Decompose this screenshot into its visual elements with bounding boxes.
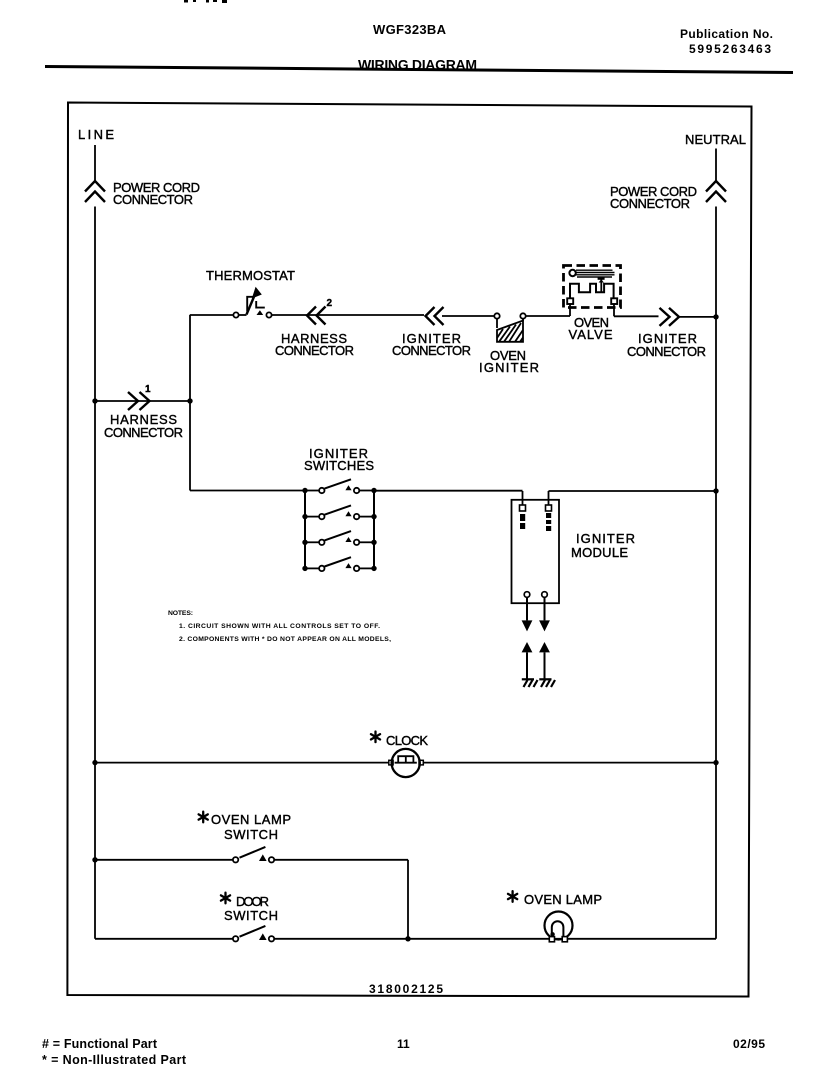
svg-text:NOTES:: NOTES:	[168, 610, 193, 617]
svg-text:SWITCHES: SWITCHES	[304, 458, 374, 473]
svg-text:CONNECTOR: CONNECTOR	[392, 343, 471, 358]
svg-text:SWITCH: SWITCH	[224, 827, 278, 842]
svg-text:11: 11	[397, 1037, 410, 1051]
svg-text:1. CIRCUIT SHOWN WITH ALL CONT: 1. CIRCUIT SHOWN WITH ALL CONTROLS SET T…	[179, 623, 380, 630]
svg-text:MODULE: MODULE	[571, 545, 628, 560]
svg-text:DOOR: DOOR	[236, 894, 269, 909]
svg-text:NEUTRAL: NEUTRAL	[685, 132, 746, 147]
svg-text:CONNECTOR: CONNECTOR	[104, 425, 183, 440]
svg-text:CONNECTOR: CONNECTOR	[113, 192, 193, 207]
svg-text:THERMOSTAT: THERMOSTAT	[206, 268, 295, 283]
svg-text:Publication No.: Publication No.	[680, 27, 773, 41]
svg-text:CLOCK: CLOCK	[386, 733, 428, 748]
svg-text:WGF323BA: WGF323BA	[373, 22, 447, 37]
svg-text:CONNECTOR: CONNECTOR	[627, 344, 706, 359]
svg-text:LINE: LINE	[78, 127, 114, 142]
svg-text:VALVE: VALVE	[569, 327, 613, 342]
svg-text:IGNITER: IGNITER	[479, 360, 539, 375]
svg-text:318002125: 318002125	[369, 982, 443, 996]
svg-text:OVEN LAMP: OVEN LAMP	[524, 892, 602, 907]
svg-text:CONNECTOR: CONNECTOR	[610, 196, 690, 211]
svg-text:SWITCH: SWITCH	[224, 908, 278, 923]
svg-text:2. COMPONENTS WITH * DO NOT AP: 2. COMPONENTS WITH * DO NOT APPEAR ON AL…	[179, 636, 391, 643]
svg-text:OVEN LAMP: OVEN LAMP	[211, 812, 291, 827]
svg-text:2: 2	[327, 298, 333, 309]
svg-text:02/95: 02/95	[733, 1037, 765, 1051]
svg-text:# = Functional Part: # = Functional Part	[42, 1037, 158, 1051]
svg-text:* = Non-Illustrated Part: * = Non-Illustrated Part	[42, 1053, 187, 1067]
svg-text:1: 1	[145, 384, 151, 395]
svg-text:CONNECTOR: CONNECTOR	[275, 343, 354, 358]
svg-text:IGNITER: IGNITER	[576, 531, 635, 546]
svg-text:5995263463: 5995263463	[689, 42, 771, 56]
